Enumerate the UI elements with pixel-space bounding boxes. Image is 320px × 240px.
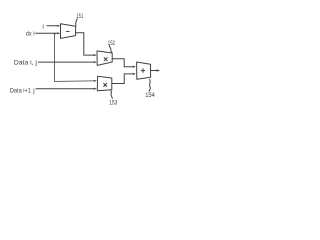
adder block 154 [137,62,151,79]
wire: 153 output to 154 [112,74,135,84]
junction dot on dx i line [54,33,56,35]
times sign in 153 [104,83,107,86]
svg-text:i: i [42,24,44,31]
wire: Data i, j into 152 [38,61,95,63]
arrowhead dx branch into 153 [94,80,97,82]
minus sign in 151 [67,31,70,33]
svg-text:153: 153 [109,99,118,106]
wire: 154 output [151,70,158,72]
times sign in 152 [104,58,107,61]
leader line for 154 [149,79,150,91]
arrowhead 154 output [157,69,160,71]
arrowhead 151 output into 152 [94,54,97,56]
svg-text:154: 154 [145,92,155,99]
arrowhead 152 output into 154 [133,66,136,68]
leader line for 152 [109,46,112,53]
arrowhead dx i into 151 [57,32,60,34]
svg-text:j: j [32,88,34,95]
arrowhead Data i, j into 152 [94,61,97,63]
subtractor block 151 [61,24,76,39]
svg-text:Data i, j: Data i, j [14,60,37,67]
svg-text:Data i+1: Data i+1 [10,88,31,95]
arrowhead i into 151 [57,25,60,27]
svg-text:dx: dx [26,30,33,37]
wire: 151 output to 152 [76,33,95,55]
multiplier block 152 [97,51,112,66]
wire: Data i+1 j into 153 [36,88,95,90]
multiplier block 153 [97,76,112,91]
svg-text:i: i [33,30,34,37]
svg-text:152: 152 [108,40,115,47]
wire: input dx i into 151 [36,32,59,34]
wire: 152 output to 154 [112,59,134,67]
wire: input i into 151 [47,25,59,27]
leader line for 153 [111,91,113,99]
leader line for 151 [76,19,78,26]
plus sign in 154 [141,69,145,73]
svg-text:151: 151 [76,13,83,20]
arrowhead 153 output into 154 [133,73,136,75]
wire: dx branch down to 153 [55,33,96,81]
arrowhead Data i+1 j into 153 [94,88,97,90]
